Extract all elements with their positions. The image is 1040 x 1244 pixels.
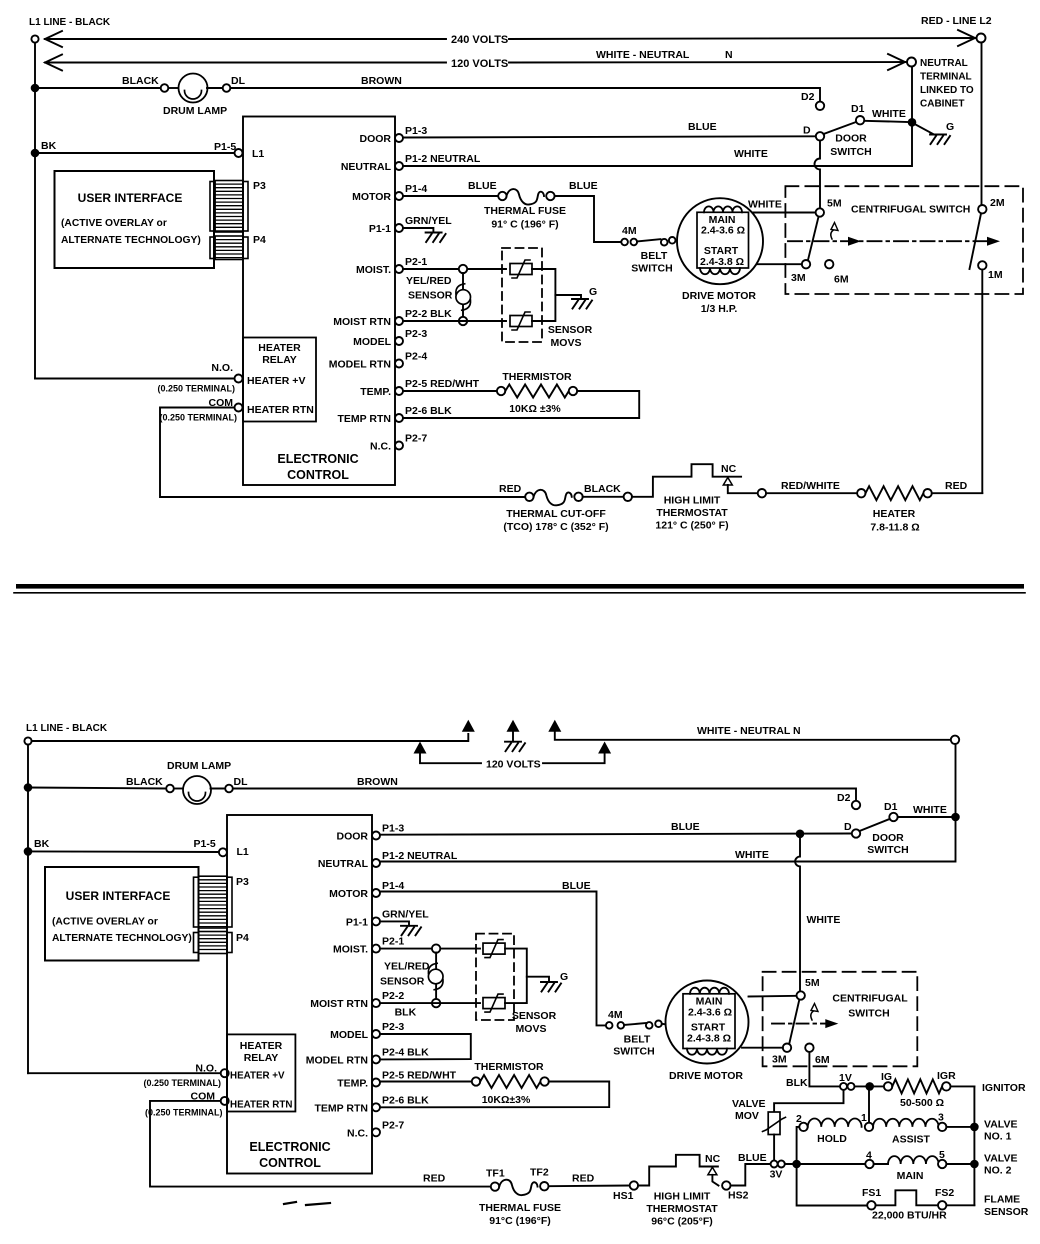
wire motor START to 3M (top) — [749, 263, 802, 265]
svg-text:P1-2 NEUTRAL: P1-2 NEUTRAL — [382, 850, 458, 862]
svg-text:WHITE: WHITE — [734, 148, 768, 160]
wire rail to N.O. (bottom) — [28, 1072, 221, 1074]
lamp DL drum lamp (bottom) — [183, 776, 211, 804]
svg-text:BLUE: BLUE — [468, 180, 497, 192]
node 3M (top) — [802, 260, 810, 268]
lever 5M to 3M (bottom) — [789, 1000, 799, 1044]
junction sensor top (top) — [459, 265, 467, 273]
wire COM loop (bottom) — [150, 1101, 491, 1187]
svg-text:WHITE: WHITE — [748, 199, 782, 211]
wire NC to RED/WHITE terminal (top) — [728, 485, 758, 493]
svg-text:1M: 1M — [988, 269, 1003, 281]
svg-text:91°C (196°F): 91°C (196°F) — [489, 1215, 551, 1227]
svg-text:FS2: FS2 — [935, 1187, 954, 1199]
svg-text:BELT: BELT — [624, 1034, 651, 1046]
svg-text:(TCO) 178° C (352° F): (TCO) 178° C (352° F) — [503, 521, 608, 533]
wire L1 rail vertical (bottom) — [27, 745, 29, 1074]
pin P2-2 MOIST RTN (bottom) — [310, 990, 404, 1010]
node door switch D1 (bottom) — [889, 813, 897, 821]
wire BROWN drum lamp to D2 (top) — [231, 88, 821, 102]
wire dot to 5M vertical WHITE (bottom) — [795, 838, 800, 991]
svg-text:VALVE: VALVE — [984, 1119, 1017, 1131]
wire belt switch to motor (bottom) — [662, 1023, 667, 1026]
svg-text:NO. 1: NO. 1 — [984, 1131, 1012, 1143]
svg-text:N: N — [725, 49, 733, 61]
coil motor main (bottom) — [690, 988, 729, 994]
wire P2-5 to thermistor (top) — [403, 390, 497, 392]
wire lamp stub right (bottom) — [211, 788, 226, 790]
svg-text:120 VOLTS: 120 VOLTS — [451, 58, 508, 70]
wire 1M down to heater (top) — [981, 270, 983, 493]
wire MOV link vertical (bottom) — [505, 949, 527, 1004]
svg-text:NEUTRAL: NEUTRAL — [318, 858, 369, 870]
varistor MOV top (bottom) — [483, 943, 505, 954]
svg-text:SWITCH: SWITCH — [848, 1008, 889, 1020]
junction D1 white dot (bottom) — [951, 813, 960, 822]
pin P1-4 MOTOR (top) — [352, 183, 427, 203]
node drum lamp left terminal (top) — [161, 84, 169, 92]
pin P2-5 TEMP. (bottom) — [337, 1070, 456, 1090]
wire lamp stub left (top) — [168, 87, 180, 89]
wire L1 to drum lamp (bottom) — [28, 788, 166, 789]
wire 120V bracket left (bottom) — [420, 752, 481, 763]
svg-text:NEUTRAL: NEUTRAL — [920, 58, 968, 69]
svg-text:NO. 2: NO. 2 — [984, 1165, 1012, 1177]
ground cabinet G (top) — [930, 135, 950, 145]
node neutral terminal (bottom) — [951, 736, 959, 744]
svg-text:120 VOLTS: 120 VOLTS — [486, 759, 541, 771]
wire NEUTRAL P1-2 white (bottom) — [380, 821, 956, 862]
svg-text:MOV: MOV — [735, 1110, 759, 1122]
svg-text:22,000 BTU/HR: 22,000 BTU/HR — [872, 1210, 947, 1222]
svg-text:P2-2 BLK: P2-2 BLK — [405, 308, 452, 320]
pin P2-1 MOIST. (bottom) — [333, 936, 404, 956]
pin P2-3 MODEL (bottom) — [330, 1021, 404, 1041]
node contact 5 (bottom) — [938, 1160, 946, 1168]
svg-text:P1-4: P1-4 — [382, 880, 404, 892]
node IGR terminal (bottom) — [942, 1082, 950, 1090]
wire HS2 blue to 3V (bottom) — [731, 1164, 771, 1186]
svg-text:SENSOR: SENSOR — [548, 324, 593, 336]
wire heater to L2 rail (top) — [932, 492, 983, 494]
svg-text:P2-2: P2-2 — [382, 990, 404, 1002]
svg-text:HEATER +V: HEATER +V — [230, 1071, 285, 1082]
svg-text:FS1: FS1 — [862, 1187, 881, 1199]
wire RED/WHITE segment (top) — [766, 492, 857, 494]
wire D1 to neutral dot (bottom) — [898, 816, 951, 818]
svg-text:2.4-3.6 Ω: 2.4-3.6 Ω — [701, 225, 745, 237]
node 6M (bottom) — [805, 1044, 813, 1052]
node 1M (top) — [978, 261, 986, 269]
node door switch D1 (top) — [856, 116, 864, 124]
node L1 terminal (top) — [31, 35, 38, 42]
node heater right terminal (top) — [923, 489, 931, 497]
node contact 1 (bottom) — [865, 1123, 873, 1131]
wire MOV to ground (bottom) — [527, 977, 549, 982]
svg-text:D1: D1 — [884, 801, 898, 813]
node TF2 terminal (bottom) — [540, 1182, 548, 1190]
svg-text:CENTRIFUGAL SWITCH: CENTRIFUGAL SWITCH — [851, 204, 970, 216]
wire dash-dot actuation line (top) — [788, 240, 996, 242]
wire dash-dot actuation line (bottom) — [772, 1023, 826, 1025]
svg-text:VALVE: VALVE — [732, 1098, 765, 1110]
svg-text:MODEL: MODEL — [353, 336, 392, 348]
svg-text:N.O.: N.O. — [211, 362, 233, 374]
pin GRN/YEL P1-1 (bottom) — [346, 908, 429, 928]
wire DOOR P1-3 blue to D (bottom) — [380, 834, 852, 835]
connector P4 (bottom) — [194, 933, 199, 953]
svg-text:MODEL RTN: MODEL RTN — [329, 359, 391, 371]
node thermal fuse right terminal (top) — [546, 192, 554, 200]
resistor HEATER zigzag (top) — [866, 486, 924, 500]
svg-text:TERMINAL: TERMINAL — [920, 72, 972, 83]
wire MOV link vertical (top) — [532, 269, 555, 321]
wire NC to HS2 (bottom) — [712, 1175, 718, 1186]
connector P3 (bottom) — [194, 877, 199, 927]
svg-text:BLK: BLK — [786, 1077, 808, 1089]
wire junction to ground lead (top) — [916, 125, 935, 135]
svg-text:(0.250 TERMINAL): (0.250 TERMINAL) — [145, 1108, 223, 1118]
svg-text:3V: 3V — [770, 1169, 783, 1181]
svg-text:DRUM LAMP: DRUM LAMP — [163, 105, 227, 117]
svg-text:2: 2 — [796, 1113, 802, 1125]
node IG terminal (bottom) — [884, 1082, 892, 1090]
svg-text:HIGH LIMIT: HIGH LIMIT — [654, 1191, 711, 1203]
pin P2-3 MODEL (top) — [353, 328, 427, 348]
node drum lamp right terminal DL (top) — [223, 84, 231, 92]
svg-text:2.4-3.6 Ω: 2.4-3.6 Ω — [688, 1007, 732, 1019]
svg-text:SWITCH: SWITCH — [830, 146, 871, 158]
wire 6M down to 1V (bottom) — [809, 1052, 839, 1087]
wire neutral terminal down to D1 junction (bottom) — [955, 744, 957, 817]
svg-text:P2-1: P2-1 — [405, 256, 427, 268]
node 5M (top) — [816, 208, 824, 216]
svg-text:TEMP RTN: TEMP RTN — [338, 413, 391, 425]
node RED - LINE L2 terminal (top) — [977, 34, 986, 43]
pin P1-3 DOOR (top) — [360, 125, 428, 145]
svg-text:TF1: TF1 — [486, 1168, 505, 1180]
svg-text:BELT: BELT — [641, 250, 668, 262]
pin GRN/YEL P1-1 (top) — [369, 215, 452, 235]
wire P1-1 GRN/YEL stub (top) — [403, 228, 433, 233]
svg-text:HIGH LIMIT: HIGH LIMIT — [664, 495, 721, 507]
switch BELT SWITCH contacts (top) — [621, 237, 675, 246]
wire L1 supply line (bottom) — [32, 734, 469, 741]
arrow up to neutral line at 604 (bottom) — [598, 742, 611, 754]
wire dot up to contact 2 (bottom) — [797, 1127, 800, 1160]
svg-text:MOVS: MOVS — [516, 1023, 547, 1035]
wire NEUTRAL P1-2 white (top) — [403, 127, 912, 167]
svg-text:DOOR: DOOR — [835, 133, 867, 145]
motor DRIVE MOTOR circle (bottom) — [666, 981, 749, 1064]
wire motor start to 3M (bottom) — [742, 1047, 783, 1049]
svg-text:N.C.: N.C. — [370, 441, 391, 453]
coil motor start (top) — [700, 268, 740, 274]
svg-text:(ACTIVE OVERLAY or: (ACTIVE OVERLAY or — [61, 218, 167, 229]
svg-text:WHITE: WHITE — [872, 108, 906, 120]
junction drum-lamp branch (top) — [31, 84, 40, 93]
junction sensor bottom (top) — [459, 317, 467, 325]
svg-text:P2-3: P2-3 — [382, 1021, 404, 1033]
svg-text:USER INTERFACE: USER INTERFACE — [78, 191, 183, 205]
svg-text:MODEL: MODEL — [330, 1029, 369, 1041]
svg-text:G: G — [589, 286, 597, 298]
svg-text:D2: D2 — [801, 91, 815, 103]
node 1V left contact (bottom) — [840, 1083, 847, 1090]
node door switch D (bottom) — [852, 829, 860, 837]
node heater left terminal (top) — [857, 489, 865, 497]
node thermistor left terminal (bottom) — [472, 1077, 480, 1085]
svg-text:CENTRIFUGAL: CENTRIFUGAL — [832, 993, 908, 1005]
svg-text:YEL/RED: YEL/RED — [406, 275, 452, 287]
wire neutral rail (bottom) — [555, 731, 951, 740]
motor DRIVE MOTOR circle (top) — [677, 198, 763, 284]
contact NC arrow (top) — [723, 478, 732, 486]
svg-text:HEATER RTN: HEATER RTN — [230, 1100, 292, 1111]
svg-text:DOOR: DOOR — [337, 831, 369, 843]
junction valve1 bus dot (bottom) — [970, 1123, 979, 1132]
wire 4 to main coil (bottom) — [874, 1163, 888, 1165]
actuator arrow small (top) — [831, 230, 834, 239]
svg-text:MODEL RTN: MODEL RTN — [306, 1054, 368, 1066]
box CENTRIFUGAL SWITCH dashed (top) — [785, 186, 1023, 294]
svg-text:(0.250 TERMINAL): (0.250 TERMINAL) — [143, 1078, 221, 1088]
lamp DL drum lamp (top) — [179, 74, 208, 103]
wire belt switch to motor (top) — [676, 239, 682, 242]
svg-text:L1: L1 — [252, 148, 264, 160]
svg-text:HEATER +V: HEATER +V — [247, 375, 305, 387]
svg-text:D2: D2 — [837, 792, 851, 804]
svg-text:ASSIST: ASSIST — [892, 1134, 931, 1146]
svg-text:DOOR: DOOR — [872, 832, 904, 844]
svg-text:MOIST.: MOIST. — [356, 264, 391, 276]
node TF1 terminal (bottom) — [491, 1182, 499, 1190]
svg-text:96°C (205°F): 96°C (205°F) — [651, 1216, 713, 1228]
pin P2-2 MOIST RTN (top) — [333, 308, 452, 328]
box motor windings (top) — [697, 212, 749, 268]
arrow filled mid (top) — [848, 237, 861, 246]
node 3V right contact (bottom) — [778, 1161, 785, 1168]
svg-text:BLACK: BLACK — [584, 483, 621, 495]
svg-text:SENSOR: SENSOR — [408, 290, 453, 302]
node 5M (bottom) — [797, 991, 805, 999]
lever 5M to 3M (top) — [808, 217, 819, 260]
fuse THERMAL FUSE symbol (top) — [507, 189, 545, 205]
wire P2-2 to MOV box (bottom) — [380, 1002, 480, 1004]
box USER INTERFACE (top) — [55, 171, 215, 268]
svg-text:BLACK: BLACK — [126, 776, 163, 788]
wire dot down to FS1 (bottom) — [797, 1168, 867, 1206]
box ELECTRONIC CONTROL (bottom) — [227, 815, 372, 1174]
arrow chevron left on 240V line (top) — [45, 31, 62, 47]
svg-text:GRN/YEL: GRN/YEL — [382, 908, 429, 920]
fuse THERMAL FUSE symbol (bottom) — [499, 1180, 537, 1196]
svg-text:P1-2 NEUTRAL: P1-2 NEUTRAL — [405, 153, 481, 165]
wire P2-1 to MOV box (top) — [403, 268, 506, 270]
pin P2-7 N.C. (bottom) — [347, 1119, 404, 1139]
junction sensor bottom (bottom) — [432, 999, 440, 1007]
svg-text:N.O.: N.O. — [195, 1063, 217, 1075]
node HS1 terminal (bottom) — [630, 1181, 638, 1189]
node HS2 terminal (bottom) — [722, 1181, 730, 1189]
wire MOTOR P1-4 blue (bottom) — [380, 892, 605, 1026]
svg-text:BLUE: BLUE — [562, 880, 591, 892]
svg-text:SWITCH: SWITCH — [613, 1046, 654, 1058]
svg-text:IG: IG — [881, 1071, 892, 1083]
svg-text:TEMP.: TEMP. — [360, 386, 391, 398]
svg-text:SENSOR: SENSOR — [380, 976, 425, 988]
node heater relay N.O. pin (top) — [235, 375, 243, 383]
box SENSOR MOVS dashed (bottom) — [476, 934, 514, 1020]
svg-text:4M: 4M — [622, 225, 637, 237]
svg-text:G: G — [560, 971, 568, 983]
node TCO left terminal (top) — [525, 493, 533, 501]
pin P2-5 TEMP. (top) — [360, 378, 479, 398]
svg-text:10KΩ ±3%: 10KΩ ±3% — [509, 403, 561, 415]
pin P2-4 MODEL RTN (top) — [329, 351, 428, 371]
wire BK to P1-5 (bottom) — [28, 850, 219, 853]
node thermistor right terminal (bottom) — [540, 1077, 548, 1085]
junction blue-to-5M dot (bottom) — [796, 830, 805, 839]
node drum lamp left terminal (bottom) — [166, 785, 174, 793]
wire dot down to contact 1 (bottom) — [868, 1091, 870, 1123]
svg-text:HEATER RTN: HEATER RTN — [247, 404, 314, 416]
junction ignitor dot (bottom) — [865, 1082, 874, 1091]
node pin P1-5 (bottom) — [219, 848, 227, 856]
svg-text:DRIVE MOTOR: DRIVE MOTOR — [682, 290, 756, 302]
svg-text:RED: RED — [499, 483, 522, 495]
box USER INTERFACE (bottom) — [45, 867, 199, 961]
svg-text:CABINET: CABINET — [920, 99, 964, 110]
svg-text:P1-1: P1-1 — [346, 916, 368, 928]
svg-text:RED: RED — [423, 1173, 446, 1185]
node contact 2 (bottom) — [799, 1123, 807, 1131]
svg-text:N.C.: N.C. — [347, 1127, 368, 1139]
arrow up chassis ground (bottom) — [507, 720, 520, 732]
node door switch D (top) — [816, 132, 824, 140]
wire thermal fuse to belt switch (top) — [555, 196, 621, 242]
svg-text:(0.250 TERMINAL): (0.250 TERMINAL) — [157, 384, 235, 394]
node FS1 terminal (bottom) — [867, 1201, 875, 1209]
junction main row dot (bottom) — [792, 1160, 801, 1169]
box SENSOR MOVS dashed (top) — [502, 248, 542, 342]
ground chassis between rails (bottom) — [505, 742, 525, 752]
wire 240 VOLTS line right segment (top) — [509, 38, 976, 39]
svg-text:MOIST RTN: MOIST RTN — [333, 316, 391, 328]
junction BK branch (top) — [31, 149, 40, 158]
svg-text:4M: 4M — [608, 1009, 623, 1021]
svg-text:BK: BK — [34, 838, 50, 850]
svg-text:NC: NC — [721, 463, 737, 475]
svg-text:3M: 3M — [791, 272, 806, 284]
svg-text:SENSOR: SENSOR — [512, 1010, 557, 1022]
svg-text:BLACK: BLACK — [122, 75, 159, 87]
sensor SENSOR symbol (bottom) — [428, 953, 443, 1000]
varistor VALVE MOV (bottom) — [768, 1112, 780, 1135]
wire motor top to 5M (bottom) — [749, 995, 797, 998]
wire L1 to drum lamp (top) — [35, 87, 161, 89]
svg-text:SWITCH: SWITCH — [867, 844, 908, 856]
svg-text:MOVS: MOVS — [551, 337, 582, 349]
svg-text:(0.250 TERMINAL): (0.250 TERMINAL) — [159, 413, 237, 423]
svg-text:P1-5: P1-5 — [214, 141, 236, 153]
ground sensor MOVs G (bottom) — [541, 982, 561, 992]
thermostat HIGH LIMIT symbol (bottom) — [638, 1155, 718, 1186]
svg-text:THERMAL CUT-OFF: THERMAL CUT-OFF — [506, 508, 606, 520]
svg-text:BLUE: BLUE — [569, 180, 598, 192]
svg-text:FLAME: FLAME — [984, 1194, 1020, 1206]
wire MOTOR P1-4 to thermal fuse (top) — [403, 195, 499, 197]
svg-text:D: D — [803, 125, 811, 137]
wire lamp stub left (bottom) — [174, 788, 184, 790]
wire D down to 5M with hop (top) — [815, 141, 821, 209]
svg-text:THERMAL FUSE: THERMAL FUSE — [484, 205, 566, 217]
pin P2-7 N.C. (top) — [370, 433, 427, 453]
wire TF2 to HS1 (bottom) — [549, 1185, 630, 1188]
node heater relay COM pin (bottom) — [221, 1097, 229, 1105]
node L1 terminal (bottom) — [24, 737, 31, 744]
coil ASSIST (bottom) — [873, 1119, 938, 1127]
svg-text:5: 5 — [939, 1149, 945, 1161]
svg-text:1V: 1V — [839, 1072, 852, 1084]
svg-text:3M: 3M — [772, 1054, 787, 1066]
arrow up to L1 line at 420 (bottom) — [414, 742, 427, 754]
wire 1V to valve MOV (bottom) — [774, 1090, 843, 1112]
ground P1-1 (top) — [426, 233, 446, 243]
svg-text:NC: NC — [705, 1153, 721, 1165]
actuator arrow small (bottom) — [811, 1011, 814, 1020]
svg-text:USER INTERFACE: USER INTERFACE — [66, 889, 171, 903]
svg-text:D1: D1 — [851, 103, 865, 115]
svg-text:D: D — [844, 821, 852, 833]
label NEUTRAL TERMINAL LINKED TO CABINET — [920, 58, 974, 110]
switch BELT SWITCH contacts (bottom) — [606, 1021, 662, 1029]
svg-text:(ACTIVE OVERLAY or: (ACTIVE OVERLAY or — [52, 917, 158, 928]
svg-text:240 VOLTS: 240 VOLTS — [451, 34, 508, 46]
svg-text:MAIN: MAIN — [897, 1170, 924, 1182]
svg-text:BROWN: BROWN — [361, 75, 402, 87]
node door switch D2 (bottom) — [852, 801, 860, 809]
svg-text:P1-5: P1-5 — [194, 838, 216, 850]
svg-text:DRUM LAMP: DRUM LAMP — [167, 760, 231, 772]
svg-text:P3: P3 — [236, 876, 249, 888]
pin P1-2 NEUTRAL (bottom) — [318, 850, 458, 870]
svg-text:121° C (250° F): 121° C (250° F) — [655, 520, 728, 532]
pin P2-6 TEMP RTN (top) — [338, 405, 453, 425]
wire contact 5 to bus (bottom) — [946, 1163, 974, 1165]
divider thick bar — [16, 584, 1024, 589]
wire thermistor loop to P2-6 (top) — [403, 391, 639, 418]
svg-text:4: 4 — [866, 1150, 872, 1162]
node door switch D2 (top) — [816, 102, 824, 110]
svg-text:RELAY: RELAY — [262, 354, 297, 366]
svg-text:L1 LINE - BLACK: L1 LINE - BLACK — [29, 17, 111, 28]
pin P1-2 NEUTRAL (top) — [341, 153, 481, 173]
svg-text:TEMP.: TEMP. — [337, 1078, 368, 1090]
resistor THERMISTOR zigzag (bottom) — [480, 1075, 540, 1088]
junction drum lamp branch (bottom) — [24, 783, 33, 792]
svg-text:HS2: HS2 — [728, 1190, 749, 1202]
svg-text:IGNITOR: IGNITOR — [982, 1082, 1026, 1094]
svg-text:5M: 5M — [827, 198, 842, 210]
svg-text:VALVE: VALVE — [984, 1153, 1017, 1165]
fuse THERMAL CUT-OFF symbol (top) — [534, 490, 572, 506]
resistor ignitor 50-500 zigzag (bottom) — [892, 1079, 942, 1093]
node 3V left contact (bottom) — [771, 1161, 778, 1168]
wire right bus vertical (bottom) — [973, 1086, 975, 1205]
lever 2M to 1M (top) — [970, 214, 982, 270]
pin P1-4 MOTOR (bottom) — [329, 880, 404, 900]
